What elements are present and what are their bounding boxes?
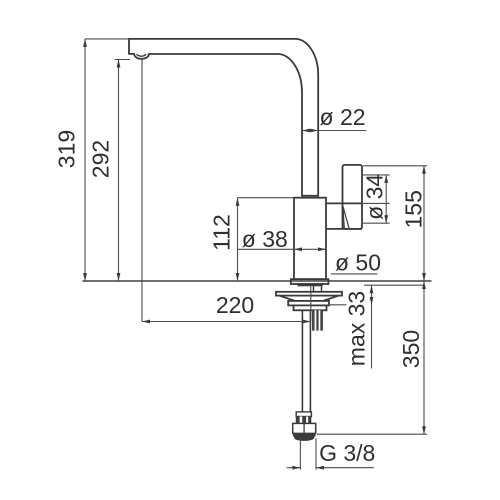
dim 112 extension + line <box>238 198 295 281</box>
arrow max33 lower <box>370 297 374 305</box>
deck lower reference line <box>364 284 424 286</box>
gasket dark <box>298 283 323 286</box>
hose right edge <box>309 310 311 412</box>
spout tube with bend <box>129 39 318 196</box>
dim 292 extension + line <box>115 60 131 282</box>
hose connector bottom rim <box>295 438 314 441</box>
arrow 112 bottom <box>236 273 240 281</box>
svg-text:ø 34: ø 34 <box>362 174 388 220</box>
arrow G3/8 left <box>292 466 300 470</box>
arrow 220 right <box>303 320 311 324</box>
svg-text:ø 50: ø 50 <box>335 250 381 276</box>
deck line <box>83 280 432 282</box>
arrow ø34 top <box>384 175 388 183</box>
arrow ø22 right <box>310 129 318 133</box>
body <box>294 198 326 280</box>
dim 155 extension + line <box>363 166 427 281</box>
threaded stud <box>312 310 323 330</box>
arrow ø34 bottom <box>384 215 388 223</box>
hose connector nut <box>296 417 312 424</box>
arrow G3/8 right <box>316 466 324 470</box>
arrow 319 bottom <box>83 273 87 281</box>
aerator inner arc <box>136 54 146 56</box>
arrow 350 bottom <box>422 426 426 434</box>
trapezoid left slant <box>280 296 296 301</box>
dim 220 line + extensions <box>142 60 311 322</box>
arrow 155 bottom <box>422 273 426 281</box>
handle <box>343 165 363 229</box>
hose connector cap mid seam <box>303 423 305 433</box>
dim ø38 line <box>238 248 327 250</box>
arrow ø38 left <box>294 247 302 251</box>
hose left edge <box>301 310 303 412</box>
svg-text:ø 22: ø 22 <box>320 104 366 130</box>
flange ø50 <box>291 279 329 284</box>
dim ø50 underline <box>331 273 378 275</box>
dim 319 extension + line <box>85 39 129 281</box>
handle mid line <box>343 202 363 204</box>
arrow ø22 left <box>302 129 310 133</box>
svg-text:220: 220 <box>216 292 254 318</box>
arrow 292 top <box>117 60 121 68</box>
lever wedge <box>343 206 349 228</box>
svg-text:max 33: max 33 <box>344 291 370 366</box>
dim ø34 extensions + line <box>362 175 390 223</box>
hose connector collar <box>296 412 311 417</box>
svg-text:G 3/8: G 3/8 <box>319 440 375 466</box>
dim ø22 line <box>302 130 366 132</box>
arrow 292 bottom <box>117 273 121 281</box>
neck stub <box>314 286 322 292</box>
dim G3/8 extensions + lines <box>287 438 374 469</box>
handle connector top <box>326 202 362 204</box>
handle connector bottom <box>326 228 362 230</box>
svg-text:112: 112 <box>209 214 235 251</box>
svg-text:319: 319 <box>54 130 80 168</box>
base plate <box>276 292 342 296</box>
arrow 112 top <box>236 198 240 206</box>
arrow 319 top <box>83 39 87 47</box>
svg-text:292: 292 <box>88 140 114 178</box>
hose connector cap <box>293 423 316 433</box>
dim 350 line + bottom extension <box>317 281 427 434</box>
hose connector cap dark bottom <box>293 433 316 439</box>
dim max33 extension + line <box>328 285 372 368</box>
arrow max33 top <box>370 285 374 293</box>
ring 2 <box>294 305 327 310</box>
svg-text:155: 155 <box>401 190 427 228</box>
arrow 155 top <box>422 166 426 174</box>
arrow 220 left <box>142 320 150 324</box>
arrow 350 top <box>422 281 426 289</box>
svg-text:ø 38: ø 38 <box>242 226 288 252</box>
ring 1 <box>288 301 329 306</box>
svg-text:350: 350 <box>398 330 424 368</box>
trapezoid right slant <box>323 296 339 301</box>
arrow ø38 right <box>318 247 326 251</box>
